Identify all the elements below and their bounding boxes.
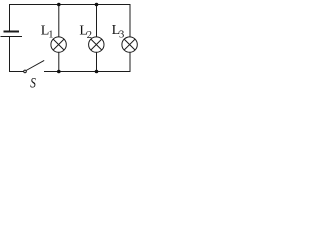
svg-text:2: 2 bbox=[87, 30, 92, 41]
svg-text:S: S bbox=[30, 76, 36, 89]
svg-text:1: 1 bbox=[48, 30, 53, 41]
svg-text:3: 3 bbox=[119, 30, 124, 41]
